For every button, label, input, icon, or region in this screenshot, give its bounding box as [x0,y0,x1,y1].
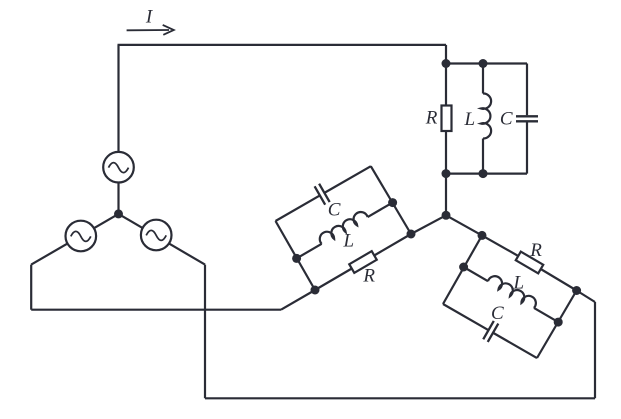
wire: star point diagonal to left source corner [31,214,118,265]
junction dot right branch bottom-right end [572,286,581,295]
svg-text:L: L [464,109,476,130]
wire: left vertical from top-left corner down to top source [117,45,119,152]
wire: right branch right perpendicular side [537,291,577,359]
resistor R (branch 2, on diagonal axis) [315,234,411,290]
node: source star point [114,209,123,218]
junction dot branch-1 top bus at L [479,59,488,68]
wire: left horizontal to middle branch [31,309,281,311]
svg-text:R: R [529,240,542,261]
inductor L (branch 1) [481,64,491,174]
wire: branch-1 bottom bus [446,173,527,175]
svg-text:I: I [145,7,154,28]
wire: top source to star point [117,183,119,214]
wire: branch-1 bottom bus to load star node [445,174,447,216]
current arrow I [127,25,174,35]
wire: star point diagonal to right source corner [119,214,206,265]
svg-text:C: C [500,108,513,129]
resistor R (branch 3, on diagonal axis) [482,235,577,290]
junction dot middle branch L-path left [292,254,301,263]
svg-text:L: L [343,231,355,252]
svg-text:R: R [425,108,438,129]
wire: middle branch right perpendicular side [371,166,411,234]
wire: top horizontal [118,44,447,46]
wire: middle branch left perpendicular side [276,221,316,290]
junction dot branch-1 bottom bus at R [442,169,451,178]
junction dot middle branch bottom-left end [311,286,320,295]
capacitor C (branch 3) [438,295,543,367]
wire: bottom horizontal [205,397,595,399]
svg-text:C: C [491,303,504,324]
wire: drop from top wire to branch-1 top bus [445,45,447,64]
resistor R (branch 1) [442,64,452,174]
junction dot right branch top-left end [478,231,487,240]
wire: right branch left perpendicular side [443,235,482,304]
inductor L (branch 2) [292,195,393,260]
junction dot right branch L-path left [459,263,468,272]
svg-text:L: L [513,273,525,294]
wire: load star node to middle branch [411,215,446,234]
svg-text:C: C [328,200,341,221]
ac source top [103,152,134,183]
wire: right vertical up [594,302,596,398]
wire: right source corner vertical down [204,265,206,399]
inductor L (branch 3) [463,259,563,323]
wire: branch-1 top bus [446,62,527,64]
junction dot branch-1 top bus at R [442,59,451,68]
junction dot branch-1 bottom bus at L [479,169,488,178]
capacitor C (branch 2) [270,157,376,230]
svg-text:R: R [362,265,375,286]
wire: lead-in to right branch from bottom-right corner [577,291,595,303]
wire: lead-in to middle branch from bottom-left [281,290,315,310]
wire: load star node to right branch [446,215,482,235]
ac source right [141,220,172,251]
node: load star point [442,211,451,220]
wire: left source corner vertical [30,265,32,310]
ac source left [66,221,97,252]
junction dot right branch L-path right [554,318,563,327]
junction dot middle branch top-right end [407,230,416,239]
capacitor C (branch 1) [516,64,538,174]
junction dot middle branch L-path right [388,198,397,207]
